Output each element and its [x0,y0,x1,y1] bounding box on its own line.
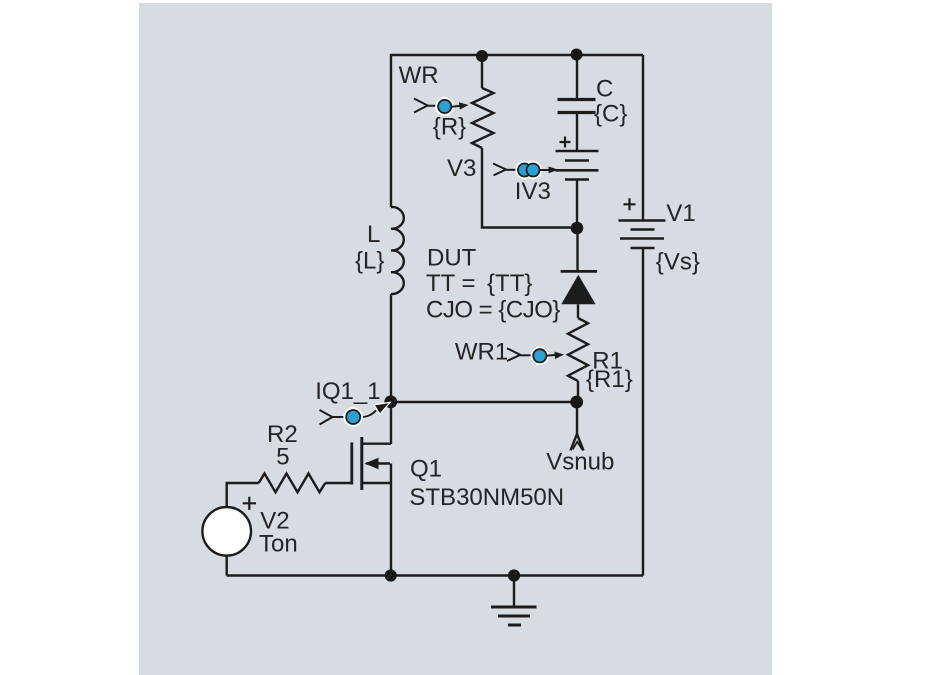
svg-text:CJO = {CJO}: CJO = {CJO} [426,297,560,324]
svg-text:5: 5 [276,444,289,471]
svg-text:V1: V1 [666,200,695,227]
svg-text:WR1: WR1 [455,339,508,366]
svg-text:V3: V3 [447,155,476,182]
svg-text:{C}: {C} [594,101,627,128]
svg-text:{R}: {R} [433,113,466,140]
svg-text:IV3: IV3 [515,178,551,205]
svg-text:STB30NM50N: STB30NM50N [409,484,564,511]
svg-text:{Vs}: {Vs} [656,248,700,275]
svg-text:Ton: Ton [259,530,298,557]
svg-text:DUT: DUT [427,245,477,272]
svg-text:{R1}: {R1} [586,366,633,393]
svg-text:TT = {TT}: TT = {TT} [426,270,532,297]
svg-text:IQ1_1: IQ1_1 [315,378,380,405]
svg-text:{L}: {L} [355,248,384,275]
svg-text:WR: WR [399,62,439,89]
svg-text:Vsnub: Vsnub [546,448,614,475]
svg-text:Q1: Q1 [410,456,442,483]
svg-text:L: L [367,221,380,248]
svg-text:C: C [596,76,613,103]
